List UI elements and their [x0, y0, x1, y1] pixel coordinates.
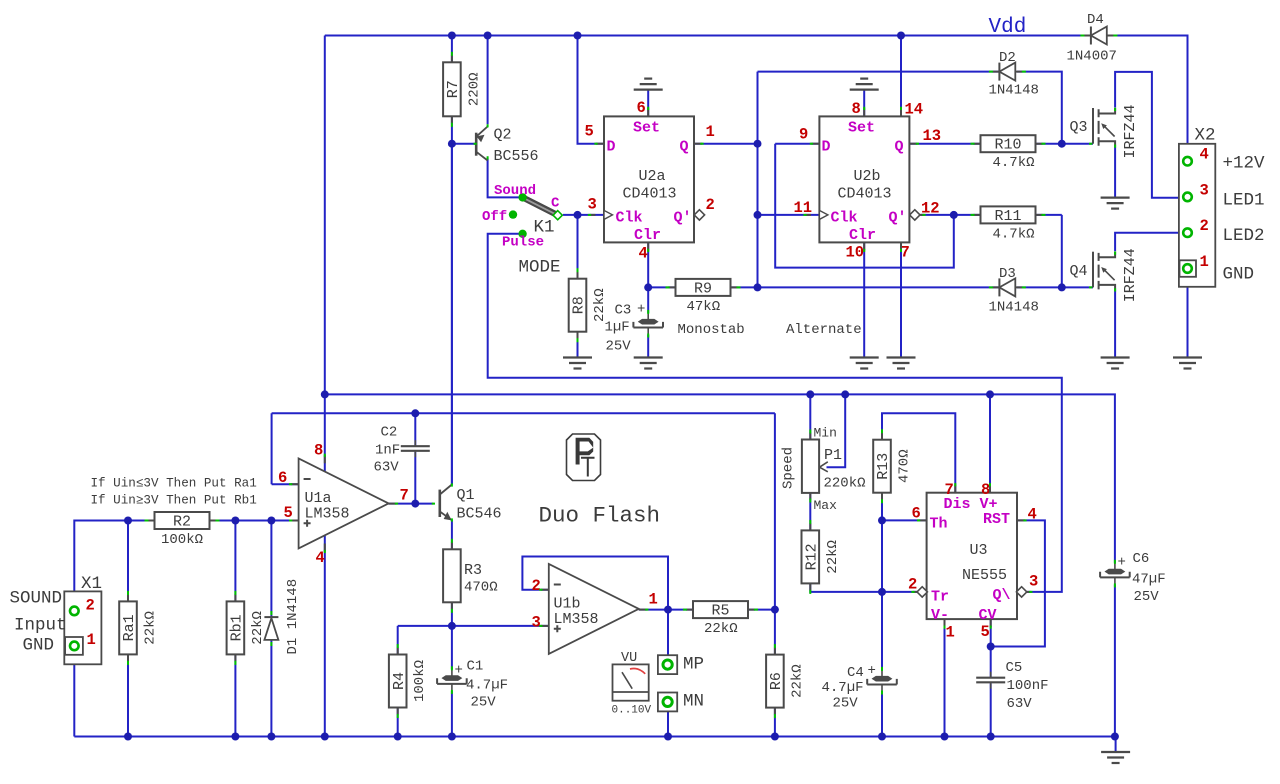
junction Vdd-D5: [574, 32, 582, 40]
wire U2a D pin 5 from Vdd: [578, 36, 605, 144]
no-connect U2b Q-bar: [910, 210, 920, 220]
svg-text:25V: 25V: [833, 696, 859, 712]
svg-text:If Uin≤3V Then Put Ra1: If Uin≤3V Then Put Ra1: [91, 477, 257, 491]
wire X1 GND pin to bottom rail: [73, 651, 75, 737]
no-connect style pin Q-bar: [1016, 587, 1026, 597]
wire U2b Q-bar 12 to R11: [921, 214, 981, 216]
label Monostab: [678, 322, 745, 338]
ground U2b Set: [850, 79, 879, 90]
svg-text:U2b: U2b: [854, 168, 881, 185]
clock wedge U2a: [604, 210, 613, 219]
wire D1 bottom: [270, 640, 272, 737]
svg-text:Clr: Clr: [634, 227, 661, 244]
pin stubs U3: [911, 483, 1032, 629]
svg-text:2: 2: [532, 577, 541, 595]
svg-text:Clr: Clr: [849, 227, 876, 244]
lead ticks MOSFETs: [1089, 108, 1115, 292]
connector MN: [658, 692, 704, 712]
junction gnd U1a pin4: [321, 733, 329, 741]
pin stubs U1a: [289, 454, 398, 553]
pin number 4 X2: [1200, 146, 1209, 164]
junction U2a Q node: [754, 140, 762, 148]
pin number 3 X2: [1200, 182, 1209, 200]
junction K1 common node: [574, 211, 582, 219]
wire lower Vdd rail: [325, 394, 1115, 736]
svg-text:47kΩ: 47kΩ: [687, 299, 721, 315]
ground R8: [563, 358, 592, 369]
resistor R3: [443, 539, 461, 613]
diode D4 1N4007: [1067, 12, 1118, 65]
wire R13 top to Dis pin 7: [882, 413, 955, 492]
label GND X1: [23, 636, 55, 656]
junction U2b Clk node: [754, 211, 762, 219]
pin number 5 U3 CV: [981, 623, 990, 641]
label Alternate: [786, 322, 862, 338]
svg-text:V-: V-: [931, 607, 949, 624]
svg-text:Q4: Q4: [1070, 263, 1088, 280]
no-connect style pin Tr: [917, 587, 927, 597]
wire R2 to U1a plus input pin 5: [209, 520, 298, 522]
svg-text:25V: 25V: [606, 339, 632, 355]
resistor R13: [873, 429, 912, 503]
pin number 6 U2a Set: [637, 99, 646, 117]
wire R7 top: [451, 36, 453, 63]
junction D1 top node: [267, 517, 275, 525]
integrated circuit U3 NE555 timer: [927, 493, 1017, 624]
junction gnd R6: [771, 733, 779, 741]
wire Rb1 top: [234, 521, 236, 602]
svg-text:8: 8: [852, 100, 861, 118]
svg-text:8: 8: [981, 481, 990, 499]
wire R12 to Tr node: [810, 583, 882, 592]
label Duo Flash: [539, 503, 661, 529]
svg-text:BC546: BC546: [457, 506, 502, 523]
svg-text:7: 7: [400, 487, 409, 505]
wire U2b Q pin 13 to R10: [909, 143, 980, 145]
integrated circuit U2a CD4013 flip-flop: [604, 116, 694, 244]
svg-text:7: 7: [945, 481, 954, 499]
wire R8 to ground: [577, 332, 579, 358]
svg-text:22kΩ: 22kΩ: [789, 664, 805, 698]
svg-text:Min: Min: [814, 426, 837, 441]
svg-text:R12: R12: [804, 543, 821, 570]
svg-text:SOUND: SOUND: [10, 589, 63, 609]
svg-text:0..10V: 0..10V: [612, 705, 652, 717]
pin number 13 U2b Q: [923, 127, 942, 145]
svg-text:Duo Flash: Duo Flash: [539, 503, 661, 529]
label Off: [482, 209, 507, 225]
transistor Q4 IRFZ44: [1070, 248, 1140, 302]
wire R5 to R6 node: [748, 609, 775, 611]
pin number 4 U2a Clr: [639, 245, 648, 263]
switch K1 common pole: [553, 211, 562, 220]
junction Vdd-R7: [448, 32, 456, 40]
wire Vdd left drop to lower rail and U1a pin 8: [324, 36, 326, 737]
wire U2a Q pin 1: [694, 143, 758, 145]
wire U2b D pin 9 loop from Q-bar 12: [775, 144, 954, 268]
wire Ra1 top: [127, 521, 129, 602]
svg-text:4: 4: [316, 549, 325, 567]
pin number 1 U2a Q: [706, 123, 715, 141]
junction Q-bar12 node: [950, 211, 958, 219]
wire Q2 collector to Sound contact: [488, 159, 519, 198]
svg-text:C6: C6: [1133, 551, 1150, 567]
wire D3 anode to Q4 gate node: [1017, 215, 1062, 288]
ground Q4 source: [1101, 358, 1130, 369]
resistor R5: [683, 601, 758, 637]
junction R3-C1 node: [448, 622, 456, 630]
meter VU: [612, 651, 652, 717]
svg-text:3: 3: [588, 196, 597, 214]
label Vdd: [989, 16, 1027, 39]
svg-text:Input: Input: [14, 616, 67, 636]
svg-text:Q2: Q2: [494, 127, 512, 144]
junction U1b output node: [664, 606, 672, 614]
svg-text:K1: K1: [534, 218, 555, 238]
wire C3 to ground: [647, 335, 649, 358]
svg-text:P1: P1: [824, 447, 842, 464]
no-connect U2a Q-bar: [694, 210, 704, 220]
junction P1 wiper: [841, 390, 849, 398]
svg-text:14: 14: [905, 101, 924, 119]
svg-text:4.7µF: 4.7µF: [466, 678, 508, 694]
junction gnd U3 pin1: [941, 733, 949, 741]
label MODE: [519, 258, 561, 278]
svg-text:Max: Max: [814, 498, 838, 513]
svg-text:D: D: [607, 139, 616, 156]
wire U2b pin 7 to ground: [900, 242, 902, 357]
wire U3 CV pin 5: [990, 619, 992, 678]
wire U1b feedback: [522, 557, 668, 610]
svg-text:1: 1: [1200, 253, 1209, 271]
svg-text:2: 2: [86, 597, 95, 615]
pin number 3 U3 Q-bar: [1029, 573, 1038, 591]
svg-text:R6: R6: [768, 672, 785, 690]
wire P1 bottom to R12: [809, 493, 811, 531]
svg-text:R10: R10: [995, 137, 1022, 154]
svg-text:1N4148: 1N4148: [989, 83, 1039, 99]
junction Q4 gate node: [1058, 283, 1066, 291]
pin stubs U1b: [539, 590, 648, 626]
svg-text:RST: RST: [983, 511, 1010, 528]
svg-text:6: 6: [278, 469, 287, 487]
label K1: [534, 218, 555, 238]
junction Th node: [878, 516, 886, 524]
svg-text:4: 4: [639, 245, 648, 263]
junction C2 top node: [411, 409, 419, 417]
junction Q2 base node: [448, 140, 456, 148]
svg-text:IRFZ44: IRFZ44: [1122, 104, 1139, 158]
pin number 8 U3 V+: [981, 481, 990, 499]
pin number 1 X2: [1200, 253, 1209, 271]
connector X1: [64, 574, 102, 664]
pin number 2 X2: [1200, 217, 1209, 235]
wire U3 V- pin 1: [944, 619, 946, 736]
svg-text:4.7kΩ: 4.7kΩ: [993, 226, 1035, 242]
svg-text:63V: 63V: [374, 460, 400, 476]
label LED1: [1223, 191, 1265, 211]
svg-text:10: 10: [846, 244, 865, 262]
svg-text:R3: R3: [464, 562, 482, 579]
pin number 11 U2b Clk: [794, 199, 813, 217]
wire U1a output to Q1 base: [389, 503, 434, 505]
wire Q2 base node down to Q1 collector: [451, 144, 453, 485]
diode D2 1N4148: [989, 50, 1039, 99]
wire P1 wiper to rail: [827, 394, 846, 467]
junction Tr node: [878, 588, 886, 596]
junction C3 node: [644, 283, 652, 291]
svg-text:Q': Q': [889, 210, 907, 227]
wire K1 common to U2a Clk and R8: [563, 215, 604, 279]
svg-text:Q1: Q1: [457, 487, 475, 504]
junction Q3 gate node: [1058, 140, 1066, 148]
wire Th node to U3: [882, 519, 927, 521]
svg-text:D4: D4: [1087, 12, 1104, 28]
resistor Rb1: [227, 591, 266, 665]
svg-text:If Uin≥3V Then Put Rb1: If Uin≥3V Then Put Rb1: [91, 494, 257, 508]
svg-text:X1: X1: [81, 574, 102, 594]
svg-text:5: 5: [981, 623, 990, 641]
junction V+ node: [986, 390, 994, 398]
svg-text:1: 1: [946, 624, 955, 642]
wire P1 top from rail: [809, 394, 811, 439]
svg-text:2: 2: [908, 576, 917, 594]
capacitor C5: [976, 660, 1048, 712]
svg-text:LED1: LED1: [1223, 191, 1265, 211]
svg-text:Q: Q: [895, 139, 904, 156]
junction gnd R4: [394, 733, 402, 741]
svg-text:1N4007: 1N4007: [1067, 49, 1117, 65]
ground C3: [634, 358, 663, 369]
svg-text:Ra1: Ra1: [121, 614, 138, 641]
junction gnd Ra1: [124, 733, 132, 741]
capacitor C3: [605, 302, 664, 355]
svg-text:Set: Set: [633, 120, 660, 137]
svg-text:Tr: Tr: [931, 589, 949, 606]
label +12V: [1223, 154, 1266, 174]
wire Tr pin 2: [882, 591, 917, 593]
wire C1 top: [451, 626, 453, 669]
wire C2 branch bottom: [414, 452, 416, 504]
wire MN connector to rail: [667, 711, 669, 736]
junction rail2 start: [321, 390, 329, 398]
capacitor C4: [822, 663, 897, 712]
svg-text:+: +: [455, 663, 463, 679]
svg-text:LED2: LED2: [1223, 226, 1265, 246]
svg-text:C: C: [551, 196, 560, 212]
op-amp U1a LM358: [299, 458, 389, 548]
op-amp U1b LM358: [549, 564, 639, 654]
wire R13 bottom to Th node: [881, 493, 883, 521]
ground U2b Clr: [850, 358, 879, 369]
wire D2 anode to Q3 gate node: [1017, 72, 1062, 144]
junction gnd Rb1: [231, 733, 239, 741]
wire D2 cathode net vertical: [757, 72, 759, 288]
junction R5-R6 node: [771, 606, 779, 614]
svg-text:U1b: U1b: [554, 596, 581, 613]
capacitor C6: [1100, 551, 1166, 605]
ground U2b pin7: [887, 358, 916, 369]
svg-text:NE555: NE555: [962, 567, 1007, 584]
transistor Q2: [476, 127, 538, 166]
pin number 10 U2b Clr: [846, 244, 865, 262]
wire R9 right: [730, 286, 757, 288]
pin number 5 U1a: [284, 504, 293, 522]
svg-text:Clk: Clk: [616, 210, 643, 227]
transistor Q3 IRFZ44: [1070, 104, 1140, 158]
junction gnd MN: [664, 733, 672, 741]
wire Q3 source to ground: [1114, 146, 1116, 197]
label rule Ra1: [91, 477, 257, 491]
pin stubs U2a: [588, 107, 704, 252]
svg-text:22kΩ: 22kΩ: [250, 611, 266, 645]
resistor R10: [971, 135, 1046, 171]
potentiometer P1: [781, 426, 866, 514]
svg-text:IRFZ44: IRFZ44: [1122, 248, 1139, 302]
svg-text:+: +: [1118, 555, 1126, 571]
svg-text:VU: VU: [621, 651, 637, 666]
svg-text:GND: GND: [23, 636, 55, 656]
svg-text:22kΩ: 22kΩ: [143, 611, 159, 645]
diode D3 1N4148: [989, 266, 1039, 316]
wire Q2 emitter to Vdd: [487, 36, 489, 125]
resistor R12: [802, 520, 841, 594]
wire R9 node to D3 cathode: [758, 286, 1000, 288]
svg-text:1µF: 1µF: [605, 320, 630, 336]
wire U2b Clr pin 10 to ground: [863, 242, 865, 357]
svg-text:Q: Q: [680, 139, 689, 156]
pin number 1 X1: [87, 631, 96, 649]
pin number 2 U2a Q-bar: [706, 196, 715, 214]
svg-text:R9: R9: [694, 280, 712, 297]
wire D1 top: [270, 521, 272, 618]
svg-text:C5: C5: [1006, 660, 1023, 676]
svg-text:22kΩ: 22kΩ: [592, 288, 608, 322]
junction Ra1 top node: [124, 517, 132, 525]
resistor Ra1: [119, 591, 158, 665]
logo PT: [567, 434, 601, 481]
svg-text:CD4013: CD4013: [623, 186, 677, 203]
wire SOUND input to R2: [74, 521, 154, 607]
svg-text:3: 3: [1200, 182, 1209, 200]
svg-text:Q': Q': [674, 210, 692, 227]
connector MP: [658, 655, 704, 675]
label Pulse: [502, 235, 544, 251]
svg-text:C1: C1: [467, 659, 484, 675]
ground U2a Set: [634, 79, 663, 90]
wire Pulse contact to 555 output net: [488, 234, 1062, 592]
lead ticks Q1 Q2: [432, 124, 488, 521]
ground X2: [1173, 358, 1202, 369]
resistor R6: [766, 644, 805, 718]
pin number 2 X1: [86, 597, 95, 615]
svg-text:R8: R8: [571, 296, 588, 314]
svg-text:9: 9: [799, 126, 808, 144]
resistor R8: [569, 268, 608, 342]
svg-text:U2a: U2a: [639, 168, 666, 185]
wire C5 bottom: [990, 683, 992, 736]
junction gnd D1: [267, 733, 275, 741]
svg-text:1nF: 1nF: [375, 443, 400, 459]
resistor R9: [666, 279, 741, 315]
wire Vdd2 rail to D2: [758, 71, 1000, 73]
svg-text:22kΩ: 22kΩ: [825, 540, 841, 574]
junction gnd C5: [987, 733, 995, 741]
svg-text:R11: R11: [995, 208, 1022, 225]
resistor R11: [971, 206, 1046, 242]
pin number 1 U3 V-: [946, 624, 955, 642]
svg-text:R5: R5: [712, 603, 730, 620]
svg-text:Vdd: Vdd: [989, 16, 1027, 39]
switch K1 lever: [523, 197, 558, 215]
svg-text:3: 3: [1029, 573, 1038, 591]
label C common: [551, 196, 560, 212]
wire Rb1 bottom: [234, 654, 236, 736]
wire U2a Clr pin 4 to C3 node: [648, 242, 676, 313]
junction Rb1 top node: [231, 517, 239, 525]
wire C2 node to R6 node: [774, 413, 776, 609]
svg-text:BC556: BC556: [494, 148, 539, 165]
pin number 1 U1b: [649, 591, 658, 609]
wire ground rail bottom: [74, 737, 1115, 753]
pin number 4 U3 RST: [1028, 506, 1037, 524]
svg-text:13: 13: [923, 127, 942, 145]
svg-text:Clk: Clk: [831, 210, 858, 227]
wire R3 to node: [451, 602, 453, 626]
pin number 7 U1a: [400, 487, 409, 505]
svg-text:3: 3: [532, 614, 541, 632]
junction P1 top: [806, 390, 814, 398]
diode D1 1N4148: [264, 579, 301, 655]
svg-text:22kΩ: 22kΩ: [704, 621, 738, 637]
svg-text:Q\: Q\: [993, 587, 1011, 604]
svg-text:1: 1: [649, 591, 658, 609]
svg-text:47µF: 47µF: [1132, 572, 1166, 588]
wire R4 top: [397, 626, 399, 655]
transistor Q1: [440, 485, 502, 523]
svg-text:Monostab: Monostab: [678, 322, 745, 338]
wire R7 bottom to Q2 base node: [452, 116, 476, 143]
svg-text:Rb1: Rb1: [229, 614, 246, 641]
wire R4 bottom: [397, 708, 399, 737]
wire U2b Vdd pin 14: [900, 36, 902, 117]
resistor R7: [443, 52, 482, 127]
svg-text:MN: MN: [683, 692, 704, 712]
label Sound: [494, 183, 536, 199]
ground Q3 source: [1101, 198, 1130, 209]
svg-text:+: +: [637, 302, 645, 318]
label SOUND: [10, 589, 63, 609]
svg-text:R4: R4: [391, 672, 408, 690]
wire Q4 source to ground: [1114, 290, 1116, 357]
switch K1 Off contact: [509, 210, 517, 218]
junction Vdd-pin14: [897, 32, 905, 40]
svg-text:220kΩ: 220kΩ: [824, 476, 866, 492]
pin number 8 U2b Set: [852, 100, 861, 118]
svg-text:R2: R2: [173, 514, 191, 531]
svg-text:8: 8: [314, 442, 323, 460]
wire Q4 gate: [1062, 286, 1093, 288]
connector X2: [1179, 126, 1216, 287]
pin number 2 U1b: [532, 577, 541, 595]
svg-text:MP: MP: [683, 655, 704, 675]
wire R10 right to Q3 gate: [1036, 143, 1094, 145]
svg-text:4: 4: [1200, 146, 1209, 164]
svg-text:100kΩ: 100kΩ: [412, 660, 428, 702]
svg-text:D: D: [822, 139, 831, 156]
svg-text:Off: Off: [482, 209, 507, 225]
svg-text:Speed: Speed: [781, 447, 797, 489]
